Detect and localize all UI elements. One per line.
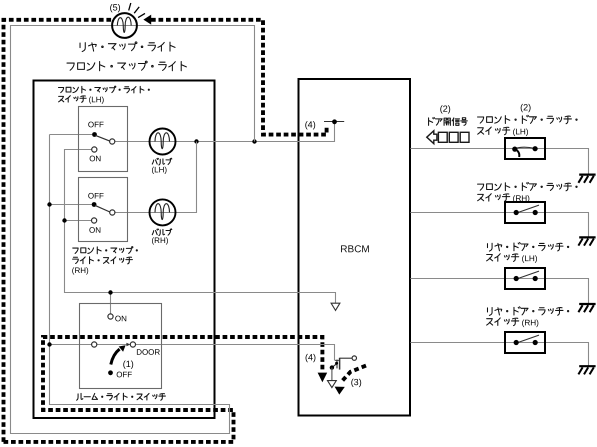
room light switch box (80, 304, 162, 389)
label ON (LH switch) (89, 154, 101, 163)
junction dot at RBCM map light pin (4) (332, 119, 337, 124)
RH switch ON contact (92, 218, 97, 223)
wire: room switch common to DOOR contact (97, 344, 128, 346)
wire: ON bus from LH switch down and right into RBCM (65, 150, 336, 304)
svg-text:(3): (3) (351, 377, 362, 387)
RH switch blade (95, 205, 110, 212)
svg-text:(LH): (LH) (513, 127, 529, 136)
label: front door latch switch (RH) (478, 182, 578, 203)
open arrow end of ON wire inside RBCM (331, 303, 340, 310)
label (4) lower (305, 352, 316, 362)
ground symbol G3 (578, 304, 595, 312)
switch contacts and blade (open) (514, 205, 539, 215)
label (2) front door latch switch (520, 102, 531, 112)
junction on OFF bus at room switch feed (47, 342, 51, 346)
door latch switch box 1 (505, 138, 545, 159)
wire harness dashed route: bottom loop to RBCM pin (4) lower (4, 337, 323, 442)
LH switch common contact (110, 139, 115, 144)
wire: room switch ON drop (110, 293, 112, 314)
dashed route (3) transistor to ground arrow (335, 366, 366, 395)
label (4) upper (305, 120, 316, 130)
svg-text:(5): (5) (110, 2, 121, 12)
label (3) (351, 377, 362, 387)
wire: room switch DOOR contact to RBCM transistor (136, 345, 335, 361)
label: rear map light (80, 42, 175, 52)
wire: RBCM output to front door latch switch RH (410, 213, 588, 238)
switch contacts and blade (closed, actuated) (512, 146, 538, 157)
wire harness dashed route: left border, top to rear lamp (4, 20, 112, 442)
label ON (RH switch) (89, 226, 101, 235)
lamp: bulb LH (150, 129, 176, 155)
junction on ON bus at RH feed (62, 218, 66, 222)
transistor output stage inside RBCM (328, 356, 357, 388)
svg-text:(RH): (RH) (522, 318, 540, 327)
svg-text:(RH): (RH) (72, 266, 89, 275)
small arrowhead at DOOR contact (126, 343, 130, 347)
door open signal connector symbol (2) (427, 131, 469, 144)
label OFF (LH switch) (88, 120, 104, 129)
label (5) (110, 2, 121, 12)
switch contacts and blade (open) (514, 271, 539, 281)
room switch DOOR contact (130, 342, 135, 347)
door latch switch box 2 (505, 202, 545, 223)
ground symbol G4 (578, 366, 595, 374)
label: bulb (RH) (151, 229, 171, 245)
wire: rear map light right terminal down to lamp bus (137, 26, 254, 142)
ground symbol G1 (578, 175, 595, 183)
wire: rear map light left terminal loop to OFF bus (11, 26, 230, 434)
svg-text:OFF: OFF (88, 192, 104, 201)
svg-text:(LH): (LH) (151, 165, 167, 174)
label RBCM (340, 244, 369, 255)
label ON (room switch) (115, 314, 127, 323)
junction: lamp bus and rear lamp drop (252, 139, 256, 143)
wire: RH switch OFF feed (50, 204, 92, 206)
LH switch blade (96, 135, 110, 141)
wire: RBCM output to rear door latch switch LH (410, 279, 588, 305)
LH switch ON contact (92, 147, 97, 152)
svg-text:(2): (2) (520, 102, 531, 112)
corner dash top-left (2, 18, 6, 22)
RH switch OFF contact (92, 202, 97, 207)
label (1) (123, 359, 134, 369)
svg-text:(4): (4) (305, 352, 316, 362)
svg-text:(LH): (LH) (89, 95, 105, 104)
label: door open signal (429, 117, 468, 125)
room switch common contact (92, 342, 97, 347)
room switch OFF contact (108, 370, 113, 375)
label (2) door open signal (440, 104, 451, 114)
wire: room light switch common feed (50, 344, 92, 346)
wire: LH switch common through bulb LH to RBCM pin (115, 122, 335, 142)
svg-text:ON: ON (115, 314, 127, 323)
svg-text:(4): (4) (305, 120, 316, 130)
label: rear door latch switch (LH) (487, 242, 569, 263)
ground symbol G2 (578, 237, 595, 245)
front map light switch RH box (79, 178, 128, 242)
label: front map light switch (RH) (72, 247, 138, 275)
wire: RH switch ON feed (65, 220, 92, 222)
junction on OFF bus at RH feed (47, 202, 51, 206)
svg-text:(1): (1) (123, 359, 134, 369)
label: front map light (67, 61, 186, 71)
label: rear door latch switch (RH) (487, 307, 569, 328)
svg-text:OFF: OFF (116, 370, 132, 379)
svg-text:ON: ON (89, 154, 101, 163)
lamp: bulb RH (150, 199, 176, 225)
junction: lamp bus to RH bulb branch (194, 139, 198, 143)
label OFF (room switch) (116, 370, 132, 379)
svg-text:(RH): (RH) (151, 236, 168, 245)
label OFF (RH switch) (88, 192, 104, 201)
label: room light switch (77, 393, 166, 400)
arrowhead at rear map light on dashed route (143, 15, 151, 25)
RBCM module box (299, 79, 411, 416)
LH switch OFF contact (92, 132, 97, 137)
light rays at rear map light (129, 3, 145, 18)
arrowhead (4) dashed route pointing down inside RBCM (318, 373, 328, 383)
wire: RBCM output to rear door latch switch RH (410, 343, 588, 367)
RH switch common contact (110, 210, 115, 215)
label: front door latch switch (LH) (478, 115, 578, 136)
door latch switch box 4 (505, 332, 545, 353)
door latch switch box 3 (505, 268, 545, 289)
wire: branch down to RH bulb row (115, 142, 197, 213)
room switch ON contact (108, 314, 113, 319)
wire harness dashed route: lamp arrow to right corner, down into RBCM pin (4) (151, 20, 327, 135)
front map light assembly box (34, 81, 215, 419)
label: bulb (LH) (151, 158, 171, 174)
svg-text:ON: ON (89, 226, 101, 235)
front map light switch LH box (79, 107, 128, 172)
svg-text:DOOR: DOOR (136, 348, 160, 357)
svg-text:(2): (2) (440, 104, 451, 114)
junction on ON wire at room switch drop (108, 290, 112, 294)
switch contacts and blade (open) (514, 335, 539, 345)
lamp: rear map light bulb (5) (112, 13, 137, 38)
label: front map light switch (LH) (58, 86, 149, 104)
svg-text:(LH): (LH) (522, 254, 538, 263)
svg-text:RBCM: RBCM (340, 244, 369, 255)
svg-text:(RH): (RH) (513, 194, 531, 203)
svg-text:OFF: OFF (88, 120, 104, 129)
actuation arrow (1) from OFF to DOOR (111, 345, 126, 364)
wire: RBCM output to front door latch switch LH (410, 149, 588, 175)
RBCM pin line for map light feed (324, 121, 344, 123)
label DOOR (room switch) (136, 348, 160, 357)
wire: LH switch OFF feed (50, 134, 93, 136)
